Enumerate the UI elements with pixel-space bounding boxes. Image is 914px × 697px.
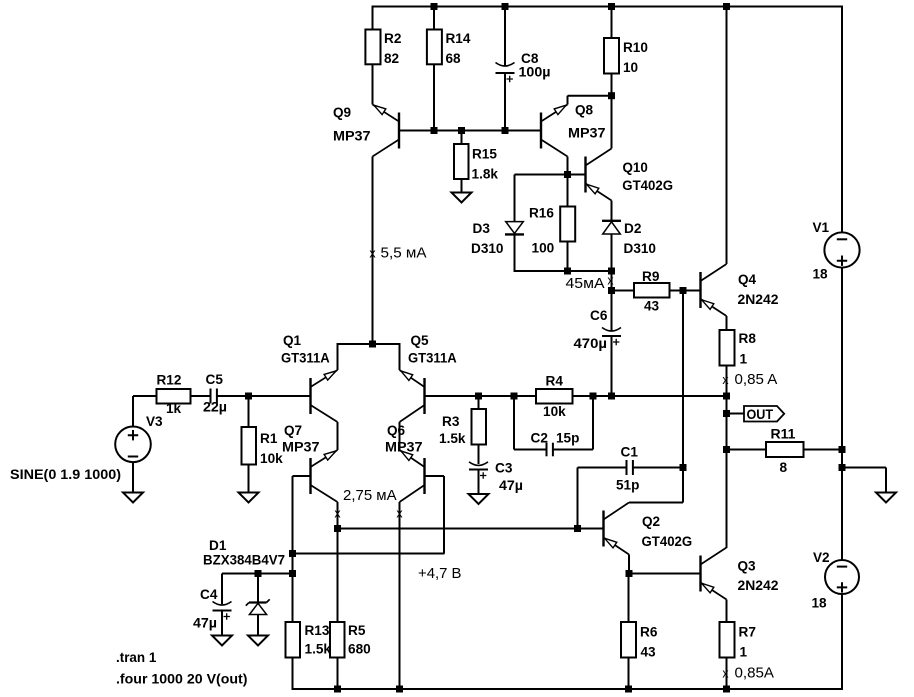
svg-text:BZX384B4V7: BZX384B4V7 bbox=[203, 553, 285, 569]
svg-text:1.5k: 1.5k bbox=[439, 431, 466, 447]
svg-text:1k: 1k bbox=[166, 401, 181, 417]
wire bbox=[567, 157, 569, 207]
svg-text:R5: R5 bbox=[348, 623, 366, 639]
node current 0,85 A bbox=[722, 372, 777, 388]
svg-text:82: 82 bbox=[384, 51, 399, 67]
svg-text:V3: V3 bbox=[146, 414, 163, 430]
svg-text:R2: R2 bbox=[384, 31, 402, 47]
svg-text:R12: R12 bbox=[157, 373, 182, 389]
svg-text:C1: C1 bbox=[621, 445, 639, 461]
svg-text:47µ: 47µ bbox=[193, 616, 217, 632]
svg-text:10: 10 bbox=[623, 60, 638, 76]
transistor Q2 bbox=[604, 503, 693, 555]
svg-text:R16: R16 bbox=[529, 206, 554, 222]
svg-text:R14: R14 bbox=[446, 31, 471, 47]
transistor Q6 bbox=[385, 423, 425, 502]
diode D3 bbox=[471, 221, 524, 257]
resistor R16 bbox=[529, 206, 575, 257]
svg-text:OUT: OUT bbox=[747, 407, 774, 423]
svg-text:x: x bbox=[369, 247, 376, 261]
wire bbox=[727, 449, 767, 451]
wire bbox=[670, 290, 701, 292]
wire bbox=[841, 6, 843, 233]
wire bbox=[628, 555, 630, 574]
wire bbox=[726, 658, 728, 690]
wire bbox=[221, 574, 223, 605]
resistor R4 bbox=[536, 374, 573, 421]
wire bbox=[372, 6, 374, 30]
wire bbox=[217, 395, 312, 397]
node current 45 mA bbox=[566, 274, 615, 293]
node marker x bbox=[334, 507, 341, 521]
capacitor C8 bbox=[496, 51, 551, 82]
resistor R1 bbox=[242, 427, 283, 467]
svg-text:R13: R13 bbox=[305, 623, 330, 639]
ground bbox=[212, 636, 232, 646]
wire bbox=[133, 395, 157, 397]
wire bbox=[433, 64, 435, 130]
wire bbox=[841, 268, 843, 561]
resistor R13 bbox=[286, 622, 332, 658]
resistor R6 bbox=[621, 622, 658, 661]
top rail wire bbox=[373, 6, 843, 8]
resistor R5 bbox=[330, 622, 371, 658]
wire emitter bridge bbox=[337, 343, 401, 345]
ground bbox=[248, 636, 268, 646]
svg-text:D310: D310 bbox=[471, 241, 504, 257]
wire bbox=[337, 422, 339, 450]
svg-text:R1: R1 bbox=[260, 431, 278, 447]
capacitor C2 loop wire bbox=[514, 396, 593, 450]
svg-text:R11: R11 bbox=[771, 427, 796, 443]
resistor R3 bbox=[439, 409, 486, 447]
svg-text:Q5: Q5 bbox=[411, 333, 429, 349]
wire bbox=[578, 468, 627, 529]
wire bbox=[611, 201, 613, 221]
svg-text:2N242: 2N242 bbox=[738, 578, 779, 594]
voltage source V3 bbox=[10, 414, 163, 483]
svg-text:15p: 15p bbox=[556, 431, 580, 447]
node marker x bbox=[396, 507, 403, 521]
resistor R14 bbox=[427, 30, 471, 68]
wire bbox=[248, 465, 250, 493]
wire bbox=[568, 96, 612, 105]
wire bbox=[628, 574, 630, 623]
svg-text:5,5 мА: 5,5 мА bbox=[381, 246, 427, 262]
wire bbox=[727, 413, 744, 415]
zener diode D1 bbox=[203, 538, 285, 636]
voltage source V2 bbox=[812, 550, 860, 612]
svg-text:GT311A: GT311A bbox=[408, 351, 457, 367]
wire bbox=[399, 502, 401, 689]
svg-text:GT311A: GT311A bbox=[281, 351, 330, 367]
voltage source V1 bbox=[813, 220, 860, 283]
node current 2,75 mA bbox=[343, 488, 397, 504]
svg-text:1.8k: 1.8k bbox=[472, 167, 499, 183]
svg-text:D3: D3 bbox=[473, 221, 491, 237]
svg-text:V2: V2 bbox=[813, 550, 830, 566]
wire bbox=[611, 234, 613, 291]
transistor Q3 bbox=[701, 548, 779, 600]
svg-text:Q1: Q1 bbox=[283, 333, 301, 349]
wire Q7 collector to Q2 base bbox=[337, 528, 578, 530]
ground bbox=[876, 493, 896, 503]
wire bbox=[726, 6, 728, 265]
svg-text:8: 8 bbox=[780, 460, 788, 476]
ground bbox=[239, 493, 259, 503]
svg-text:1: 1 bbox=[740, 645, 748, 661]
svg-text:51p: 51p bbox=[616, 478, 640, 494]
resistor R15 bbox=[454, 144, 498, 183]
svg-text:100µ: 100µ bbox=[519, 65, 551, 81]
wire bbox=[682, 291, 684, 468]
capacitor C6 bbox=[574, 308, 622, 352]
resistor R2 bbox=[365, 30, 401, 68]
node current 0,85A bbox=[722, 666, 774, 682]
svg-text:Q4: Q4 bbox=[738, 272, 756, 288]
transistor Q1 bbox=[281, 333, 338, 422]
svg-text:0,85A: 0,85A bbox=[735, 666, 775, 682]
wire bbox=[514, 234, 612, 272]
ground bbox=[469, 494, 489, 504]
wire Q2 base bbox=[578, 528, 604, 530]
wire bbox=[629, 468, 683, 503]
wire bbox=[514, 175, 516, 222]
wire bbox=[478, 445, 480, 465]
svg-text:C3: C3 bbox=[495, 461, 513, 477]
wire bbox=[726, 366, 728, 396]
svg-text:2N242: 2N242 bbox=[738, 292, 779, 308]
wire bbox=[726, 600, 728, 623]
spice directive .tran bbox=[116, 650, 156, 666]
wire Q10 base bbox=[515, 174, 586, 176]
resistor R7 bbox=[720, 622, 757, 661]
wire bbox=[478, 470, 480, 495]
capacitor C3 bbox=[469, 461, 523, 495]
svg-text:x: x bbox=[722, 667, 729, 681]
ground bbox=[123, 493, 143, 503]
wire bbox=[611, 96, 613, 149]
svg-text:C5: C5 bbox=[206, 372, 224, 388]
diode D2 bbox=[602, 221, 656, 257]
wire bbox=[337, 344, 339, 370]
svg-text:Q7: Q7 bbox=[284, 423, 302, 439]
svg-text:C6: C6 bbox=[590, 308, 608, 324]
wire bbox=[804, 449, 843, 451]
svg-text:R15: R15 bbox=[472, 147, 497, 163]
wire Q3 base bbox=[629, 573, 701, 575]
wire bbox=[504, 73, 506, 131]
svg-text:68: 68 bbox=[446, 51, 461, 67]
wire bbox=[567, 242, 569, 272]
wire bbox=[611, 336, 613, 396]
node voltage +4,7 V bbox=[418, 566, 462, 582]
wire bbox=[221, 611, 223, 636]
svg-text:MP37: MP37 bbox=[282, 440, 320, 456]
svg-text:680: 680 bbox=[348, 642, 371, 658]
svg-text:.tran 1: .tran 1 bbox=[116, 650, 156, 666]
svg-text:MP37: MP37 bbox=[333, 129, 371, 145]
svg-text:Q10: Q10 bbox=[623, 160, 648, 176]
capacitor C2 bbox=[531, 431, 580, 457]
wire bbox=[372, 157, 374, 345]
wire bbox=[399, 422, 401, 450]
output flag OUT bbox=[744, 406, 784, 423]
resistor R11 bbox=[766, 427, 804, 477]
wire bbox=[191, 395, 211, 397]
svg-text:R9: R9 bbox=[642, 269, 660, 285]
wire bbox=[292, 658, 294, 691]
wire bbox=[478, 396, 480, 409]
wire bbox=[248, 396, 250, 427]
transistor Q8 bbox=[541, 103, 606, 157]
svg-text:x: x bbox=[607, 274, 614, 288]
svg-text:+4,7 В: +4,7 В bbox=[418, 566, 462, 582]
wire bbox=[292, 476, 294, 622]
svg-text:1: 1 bbox=[740, 352, 748, 368]
wire bbox=[132, 462, 134, 493]
svg-text:.four 1000 20 V(out): .four 1000 20 V(out) bbox=[116, 672, 248, 688]
svg-text:43: 43 bbox=[641, 645, 656, 661]
wire Q9 Q8 base rail bbox=[398, 130, 542, 132]
svg-text:1.5k: 1.5k bbox=[305, 642, 332, 658]
svg-text:0,85 A: 0,85 A bbox=[735, 372, 778, 388]
transistor Q4 bbox=[701, 264, 779, 316]
svg-text:C2: C2 bbox=[531, 431, 549, 447]
svg-text:22µ: 22µ bbox=[203, 400, 227, 416]
svg-text:45мА: 45мА bbox=[566, 276, 605, 292]
svg-text:MP37: MP37 bbox=[385, 440, 423, 456]
wire bbox=[132, 396, 134, 427]
svg-text:R7: R7 bbox=[739, 625, 757, 641]
wire bbox=[611, 6, 613, 39]
svg-text:GT402G: GT402G bbox=[642, 534, 693, 550]
wire bbox=[628, 658, 630, 690]
svg-text:43: 43 bbox=[644, 299, 659, 315]
transistor Q10 bbox=[586, 149, 674, 201]
ground bbox=[452, 193, 472, 203]
resistor R10 bbox=[604, 38, 648, 76]
svg-text:10k: 10k bbox=[260, 451, 283, 467]
wire bbox=[612, 290, 635, 292]
wire bbox=[842, 468, 886, 493]
svg-text:Q8: Q8 bbox=[575, 103, 593, 119]
svg-text:V1: V1 bbox=[813, 220, 830, 236]
svg-text:R6: R6 bbox=[640, 625, 658, 641]
wire bbox=[841, 594, 843, 691]
wire bbox=[726, 396, 728, 549]
svg-text:D2: D2 bbox=[624, 221, 642, 237]
wire bbox=[372, 64, 374, 104]
svg-text:Q3: Q3 bbox=[738, 559, 756, 575]
svg-text:Q2: Q2 bbox=[642, 514, 660, 530]
wire bbox=[433, 6, 435, 30]
wire bbox=[611, 291, 613, 332]
transistor Q5 bbox=[400, 333, 457, 422]
svg-text:R8: R8 bbox=[739, 331, 757, 347]
svg-text:MP37: MP37 bbox=[568, 126, 606, 142]
wire bbox=[337, 502, 339, 622]
svg-text:GT402G: GT402G bbox=[622, 178, 673, 194]
svg-text:2,75 мА: 2,75 мА bbox=[343, 488, 397, 504]
svg-text:D310: D310 bbox=[624, 241, 657, 257]
svg-text:47µ: 47µ bbox=[499, 478, 523, 494]
svg-text:Q9: Q9 bbox=[333, 105, 351, 121]
capacitor C4 bbox=[193, 587, 232, 632]
wire bbox=[504, 6, 506, 67]
wire bbox=[399, 344, 401, 370]
node current 5,5 mA bbox=[369, 246, 426, 262]
bottom rail wire bbox=[292, 688, 844, 690]
wire main node bbox=[425, 395, 728, 397]
svg-text:470µ: 470µ bbox=[574, 336, 608, 352]
wire bbox=[337, 658, 339, 690]
wire bbox=[461, 179, 463, 193]
resistor R8 bbox=[720, 330, 757, 368]
transistor Q7 bbox=[282, 423, 338, 502]
capacitor C5 bbox=[203, 372, 227, 416]
spice directive .four bbox=[116, 672, 248, 688]
svg-text:R3: R3 bbox=[442, 414, 460, 430]
svg-text:R4: R4 bbox=[546, 374, 564, 390]
svg-text:R10: R10 bbox=[623, 40, 648, 56]
wire Q6 base bbox=[292, 476, 445, 554]
svg-text:100: 100 bbox=[532, 241, 555, 257]
resistor R12 bbox=[157, 373, 191, 418]
svg-text:10k: 10k bbox=[543, 404, 566, 420]
svg-text:x: x bbox=[722, 373, 729, 387]
svg-text:18: 18 bbox=[813, 267, 828, 283]
svg-text:Q6: Q6 bbox=[387, 423, 405, 439]
svg-text:SINE(0 1.9 1000): SINE(0 1.9 1000) bbox=[10, 467, 121, 483]
capacitor C1 bbox=[616, 445, 640, 494]
wire Q7 base bbox=[293, 475, 311, 477]
transistor Q9 bbox=[333, 105, 399, 157]
wire bbox=[611, 74, 613, 96]
svg-text:C4: C4 bbox=[200, 587, 218, 603]
wire bbox=[222, 573, 294, 575]
svg-text:18: 18 bbox=[812, 596, 827, 612]
wire bbox=[726, 316, 728, 330]
resistor R9 bbox=[634, 269, 670, 315]
wire bbox=[461, 131, 463, 145]
wire bbox=[633, 467, 683, 469]
